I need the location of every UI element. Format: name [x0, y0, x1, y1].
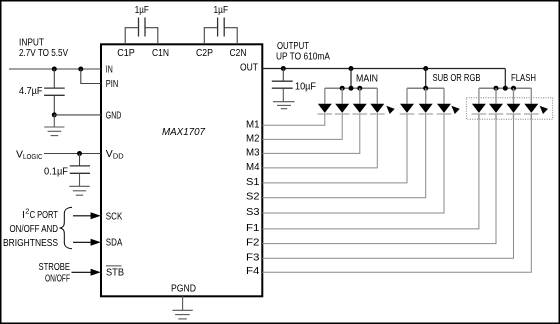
continuation arrow (MAIN) — [386, 106, 394, 114]
junction dot (vdd cap) — [77, 151, 82, 156]
wire GND — [54, 114, 101, 116]
LED D1 (MAIN 1) — [318, 88, 333, 114]
LED D3 (MAIN 3) — [353, 88, 368, 114]
svg-text:IN: IN — [106, 63, 113, 75]
svg-text:STB: STB — [106, 267, 124, 279]
svg-text:ON/OFF AND: ON/OFF AND — [10, 223, 59, 235]
svg-text:M3: M3 — [246, 146, 260, 158]
svg-text:F1: F1 — [246, 222, 260, 234]
LED D8 (FLASH 1) — [472, 88, 487, 114]
svg-text:4.7µF: 4.7µF — [19, 85, 43, 97]
svg-text:F3: F3 — [246, 251, 260, 263]
svg-text:MAX1707: MAX1707 — [162, 126, 206, 138]
svg-text:GND: GND — [106, 109, 122, 121]
continuation arrow (FLASH) — [540, 106, 548, 114]
svg-text:0.1µF: 0.1µF — [44, 166, 68, 178]
svg-text:STROBE: STROBE — [39, 261, 71, 273]
LED D6 (SUB 2) — [418, 88, 433, 114]
capacitor C4 0.1uF — [79, 154, 81, 166]
svg-text:S3: S3 — [246, 206, 260, 218]
svg-text:M1: M1 — [246, 118, 260, 130]
wire F4 to LED cathode — [262, 119, 531, 272]
brace — [60, 207, 72, 249]
wire S3 to LED cathode — [262, 114, 444, 213]
svg-text:M2: M2 — [246, 132, 260, 144]
svg-text:S2: S2 — [246, 191, 260, 203]
svg-text:PIN: PIN — [106, 78, 119, 90]
wire SDA arrow — [73, 241, 92, 243]
wire FLASH 3 cathode stub — [513, 114, 515, 119]
junction dot SUB bus — [423, 86, 428, 91]
junction dot (main) — [349, 66, 354, 71]
wire M3 to LED cathode — [262, 114, 360, 153]
op-amp U1 : IC MAX1707 box — [101, 44, 262, 296]
capacitor C1 1uF (top left) — [125, 18, 158, 45]
svg-text:C PORT: C PORT — [30, 209, 59, 221]
svg-text:PGND: PGND — [171, 283, 196, 295]
wire PIN — [81, 69, 101, 84]
ground (PGND) — [172, 296, 192, 319]
LED D7 (SUB 3) — [437, 88, 452, 114]
svg-text:10µF: 10µF — [295, 81, 316, 93]
svg-text:1µF: 1µF — [135, 4, 149, 16]
svg-text:C1N: C1N — [152, 47, 169, 59]
junction dot (input/cap) — [52, 67, 57, 72]
wire M2 to LED cathode — [262, 114, 342, 139]
ground (vdd cap) — [69, 174, 89, 196]
wire M4 to LED cathode — [262, 114, 377, 168]
svg-text:UP TO 610mA: UP TO 610mA — [276, 51, 330, 63]
svg-text:C2P: C2P — [196, 47, 213, 59]
svg-text:OUT: OUT — [240, 61, 258, 73]
wire S1 to LED cathode — [262, 114, 407, 183]
wire FLASH drop — [504, 69, 506, 89]
LED D2 (MAIN 2) — [335, 88, 350, 114]
svg-text:S1: S1 — [246, 176, 260, 188]
wire SUB drop — [425, 69, 427, 89]
svg-text:SCK: SCK — [106, 210, 123, 222]
wire F3 to LED cathode — [262, 119, 513, 258]
wire STB arrow — [72, 271, 93, 273]
capacitor C2 1uF (top right) — [204, 18, 237, 45]
svg-text:C2N: C2N — [230, 47, 247, 59]
LED D4 (MAIN 4) — [370, 88, 385, 114]
dotted box around FLASH LEDs — [466, 98, 552, 119]
junction dot (out cap) — [281, 66, 286, 71]
LED D11 (FLASH 4) — [524, 88, 539, 114]
LED D5 (SUB 1) — [400, 88, 415, 114]
junction dot (gnd) — [52, 112, 57, 117]
wire MAIN anode bus — [325, 87, 378, 89]
junction dots MAIN bus — [340, 86, 345, 91]
svg-text:F2: F2 — [246, 237, 260, 249]
ground (out cap) — [273, 89, 295, 109]
wire FLASH 4 cathode stub — [530, 114, 532, 119]
svg-text:BRIGHTNESS: BRIGHTNESS — [3, 237, 58, 249]
svg-text:FLASH: FLASH — [511, 72, 536, 84]
wire MAIN drop — [350, 69, 352, 89]
continuation arrow (SUB) — [451, 106, 459, 114]
capacitor C3 4.7uF — [53, 69, 55, 88]
svg-text:MAIN: MAIN — [356, 72, 378, 84]
junction dot (sub) — [423, 66, 428, 71]
svg-text:1µF: 1µF — [214, 4, 229, 16]
wire S2 to LED cathode — [262, 114, 425, 198]
svg-text:M4: M4 — [246, 161, 260, 173]
junction dots FLASH bus — [494, 86, 499, 91]
wire OUT rail — [262, 68, 505, 70]
svg-text:SUB OR RGB: SUB OR RGB — [433, 72, 481, 84]
svg-text:2.7V TO 5.5V: 2.7V TO 5.5V — [19, 47, 68, 59]
svg-text:SDA: SDA — [106, 237, 123, 249]
wire VDD — [44, 153, 101, 155]
junction dot (input/pin) — [78, 67, 83, 72]
wire FLASH 2 cathode stub — [495, 114, 497, 119]
svg-text:ON/OFF: ON/OFF — [45, 273, 70, 285]
LED D10 (FLASH 3) — [506, 88, 521, 114]
wire IN (input rail) — [9, 68, 101, 70]
wire SCK arrow — [73, 215, 92, 217]
LED D9 (FLASH 2) — [489, 88, 504, 114]
svg-text:C1P: C1P — [117, 47, 135, 59]
ground (input cap) — [44, 115, 64, 136]
wire F2 to LED cathode — [262, 119, 496, 243]
wire FLASH 1 cathode stub — [478, 114, 480, 119]
wire M1 to LED cathode — [262, 114, 325, 125]
wire F1 to LED cathode — [262, 119, 479, 229]
svg-text:F4: F4 — [246, 265, 260, 277]
wire FLASH anode bus — [479, 87, 531, 89]
wire SUB anode bus — [407, 87, 444, 89]
capacitor C5 10uF — [282, 69, 284, 81]
